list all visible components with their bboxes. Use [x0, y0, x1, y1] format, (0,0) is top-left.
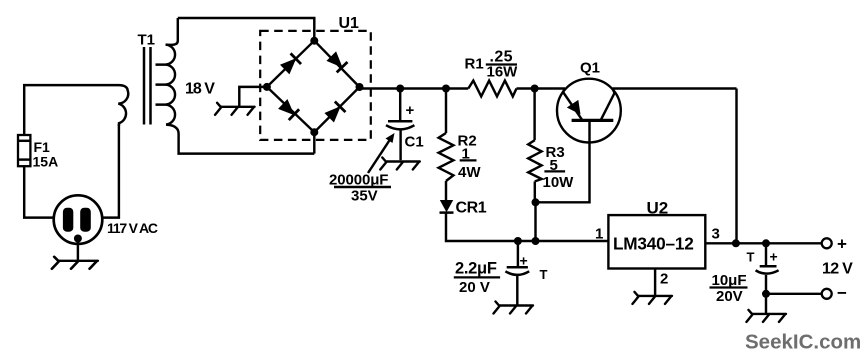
svg-text:12 V: 12 V — [822, 261, 853, 278]
svg-text:U2: U2 — [647, 198, 669, 217]
svg-text:+: + — [770, 249, 778, 265]
svg-text:Q1: Q1 — [580, 60, 600, 77]
svg-text:15A: 15A — [33, 154, 59, 170]
svg-text:20 V: 20 V — [459, 279, 490, 296]
svg-text:−: − — [837, 284, 847, 303]
svg-text:117 V AC: 117 V AC — [107, 220, 158, 236]
svg-text:U1: U1 — [339, 15, 360, 32]
svg-text:2.2μF: 2.2μF — [455, 260, 497, 278]
svg-text:T1: T1 — [138, 32, 156, 49]
svg-text:LM340–12: LM340–12 — [613, 234, 694, 254]
svg-text:4W: 4W — [458, 164, 481, 181]
svg-text:2: 2 — [660, 271, 668, 288]
svg-text:R1: R1 — [465, 56, 484, 73]
svg-text:T: T — [540, 267, 548, 282]
svg-text:SeekIC.com: SeekIC.com — [745, 331, 861, 354]
svg-text:+: + — [520, 253, 528, 269]
svg-text:16W: 16W — [487, 64, 519, 81]
svg-text:20V: 20V — [716, 288, 743, 305]
svg-text:10W: 10W — [543, 174, 575, 191]
svg-text:+: + — [406, 102, 415, 119]
svg-text:C1: C1 — [405, 133, 424, 150]
svg-text:CR1: CR1 — [456, 200, 487, 217]
svg-text:18 V: 18 V — [185, 81, 215, 98]
svg-text:T: T — [747, 250, 755, 265]
svg-text:3: 3 — [712, 225, 720, 242]
svg-text:+: + — [837, 235, 847, 254]
svg-text:1: 1 — [595, 225, 603, 242]
svg-text:35V: 35V — [351, 188, 378, 205]
